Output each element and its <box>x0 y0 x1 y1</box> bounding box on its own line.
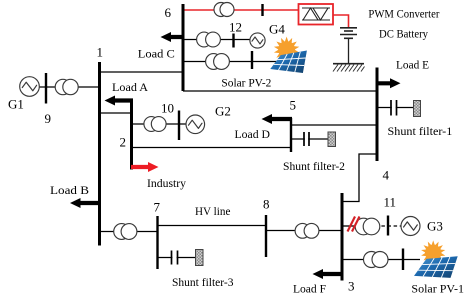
wire G1 row <box>36 86 100 88</box>
generator G3 <box>401 217 420 236</box>
bus 1 <box>98 62 101 246</box>
node tick solar PV-1 <box>402 249 404 271</box>
svg-text:Shunt filter-2: Shunt filter-2 <box>283 159 345 173</box>
svg-text:Load A: Load A <box>112 80 148 94</box>
generator G2 <box>186 115 205 134</box>
generator G4 <box>250 33 265 48</box>
bus 7 <box>156 216 158 269</box>
wire bus1 to bus2 <box>100 112 132 114</box>
svg-text:2: 2 <box>120 135 127 150</box>
wire solar PV-1 row <box>342 259 420 261</box>
industry arrow red <box>131 162 159 172</box>
wire bus2 to bus5 <box>132 147 292 149</box>
DC battery symbol <box>340 28 357 39</box>
wire G3 row dashed <box>357 225 401 227</box>
transformer T6 bus1-bus7 <box>114 224 137 240</box>
wire shunt filter-1 <box>377 107 414 109</box>
svg-text:6: 6 <box>165 5 172 20</box>
svg-text:Load F: Load F <box>293 282 326 296</box>
transformer T4 solar PV-2 row <box>206 54 230 70</box>
wire red converter to battery <box>334 15 349 27</box>
bus 9 <box>45 73 47 104</box>
svg-text:12: 12 <box>229 20 242 35</box>
svg-text:4: 4 <box>383 168 390 183</box>
transformer T8 G3 row <box>355 218 380 235</box>
svg-text:Load B: Load B <box>50 183 89 197</box>
wire shunt filter-2 <box>291 138 328 140</box>
reactor box shunt filter-2 <box>328 132 336 147</box>
wire G3 row solid part <box>342 225 357 227</box>
wire bus4 to bus3 elbow <box>342 154 377 202</box>
generator G1 <box>20 77 40 97</box>
load D arrow <box>262 114 293 124</box>
svg-text:3: 3 <box>348 279 355 294</box>
PWM converter box U1 <box>299 4 334 25</box>
svg-text:7: 7 <box>154 200 161 215</box>
load C arrow <box>161 32 185 42</box>
node tick PWM row <box>261 4 263 16</box>
svg-text:10: 10 <box>161 101 174 116</box>
reactor box shunt filter-3 <box>196 250 204 266</box>
transformer T3 G4 row <box>197 32 221 47</box>
wire G4 row <box>183 39 251 41</box>
load A arrow <box>105 96 134 106</box>
wire bus5 to bus4 <box>291 124 377 126</box>
svg-text:DC Battery: DC Battery <box>379 27 428 41</box>
wire battery to ground <box>348 39 350 64</box>
svg-text:HV line: HV line <box>195 204 230 218</box>
bus 10 <box>178 111 180 141</box>
load E arrow <box>376 78 401 88</box>
svg-text:9: 9 <box>45 111 52 126</box>
svg-text:Load C: Load C <box>138 47 175 61</box>
transformer T1 G1-bus1 <box>55 79 78 94</box>
wire HV line <box>158 225 267 227</box>
wire bus8 to bus3 <box>266 230 342 232</box>
bus 8 <box>265 215 267 257</box>
wire bus1 to bus7 <box>100 231 158 233</box>
solar PV-2 icon <box>270 37 307 73</box>
svg-text:Solar PV-2: Solar PV-2 <box>221 75 271 89</box>
svg-text:G3: G3 <box>427 219 443 234</box>
svg-text:1: 1 <box>97 45 104 60</box>
svg-text:G2: G2 <box>215 104 231 119</box>
wire G2 row <box>132 123 189 125</box>
node tick solar PV-2 <box>251 51 253 69</box>
bus 5 <box>290 118 292 152</box>
svg-text:G1: G1 <box>8 97 24 112</box>
wire shunt filter-3 <box>158 257 196 259</box>
bus 12 <box>232 34 234 48</box>
fault slashes red <box>348 217 360 232</box>
capacitor shunt filter-2 <box>305 137 308 142</box>
bus 3 <box>341 193 344 281</box>
svg-text:5: 5 <box>290 98 297 113</box>
svg-text:Shunt filter-1: Shunt filter-1 <box>388 124 453 138</box>
bus 6 <box>182 4 185 91</box>
transformer T2 bus6 PWM row <box>214 3 234 17</box>
wire bus1 to bus6 <box>100 71 184 73</box>
load F arrow <box>313 269 344 279</box>
svg-text:Load E: Load E <box>396 58 429 72</box>
wire red PWM feeder <box>183 9 298 11</box>
svg-text:11: 11 <box>384 195 397 210</box>
svg-text:8: 8 <box>263 197 270 212</box>
svg-text:Solar PV-1: Solar PV-1 <box>411 282 464 296</box>
svg-text:Industry: Industry <box>147 176 186 190</box>
svg-text:G4: G4 <box>269 22 285 37</box>
bus 2 <box>130 99 133 170</box>
capacitor shunt filter-1 <box>392 105 396 110</box>
load B arrow <box>70 198 101 208</box>
bus 4 <box>376 68 379 162</box>
svg-text:PWM Converter: PWM Converter <box>368 7 439 21</box>
bus 11 <box>387 216 389 236</box>
wire bus6 to bus4 <box>183 90 377 92</box>
reactor box shunt filter-1 <box>414 101 421 117</box>
solar PV-1 icon <box>414 240 458 278</box>
capacitor shunt filter-3 <box>172 255 176 260</box>
transformer T9 solar PV-1 row <box>364 252 389 268</box>
svg-text:Shunt filter-3: Shunt filter-3 <box>172 275 234 289</box>
wire solar PV-2 row <box>183 61 276 63</box>
transformer T5 G2 row <box>144 117 166 132</box>
ground symbol <box>333 64 365 72</box>
transformer T7 bus8-bus3 <box>295 223 319 238</box>
svg-text:Load D: Load D <box>235 127 271 141</box>
